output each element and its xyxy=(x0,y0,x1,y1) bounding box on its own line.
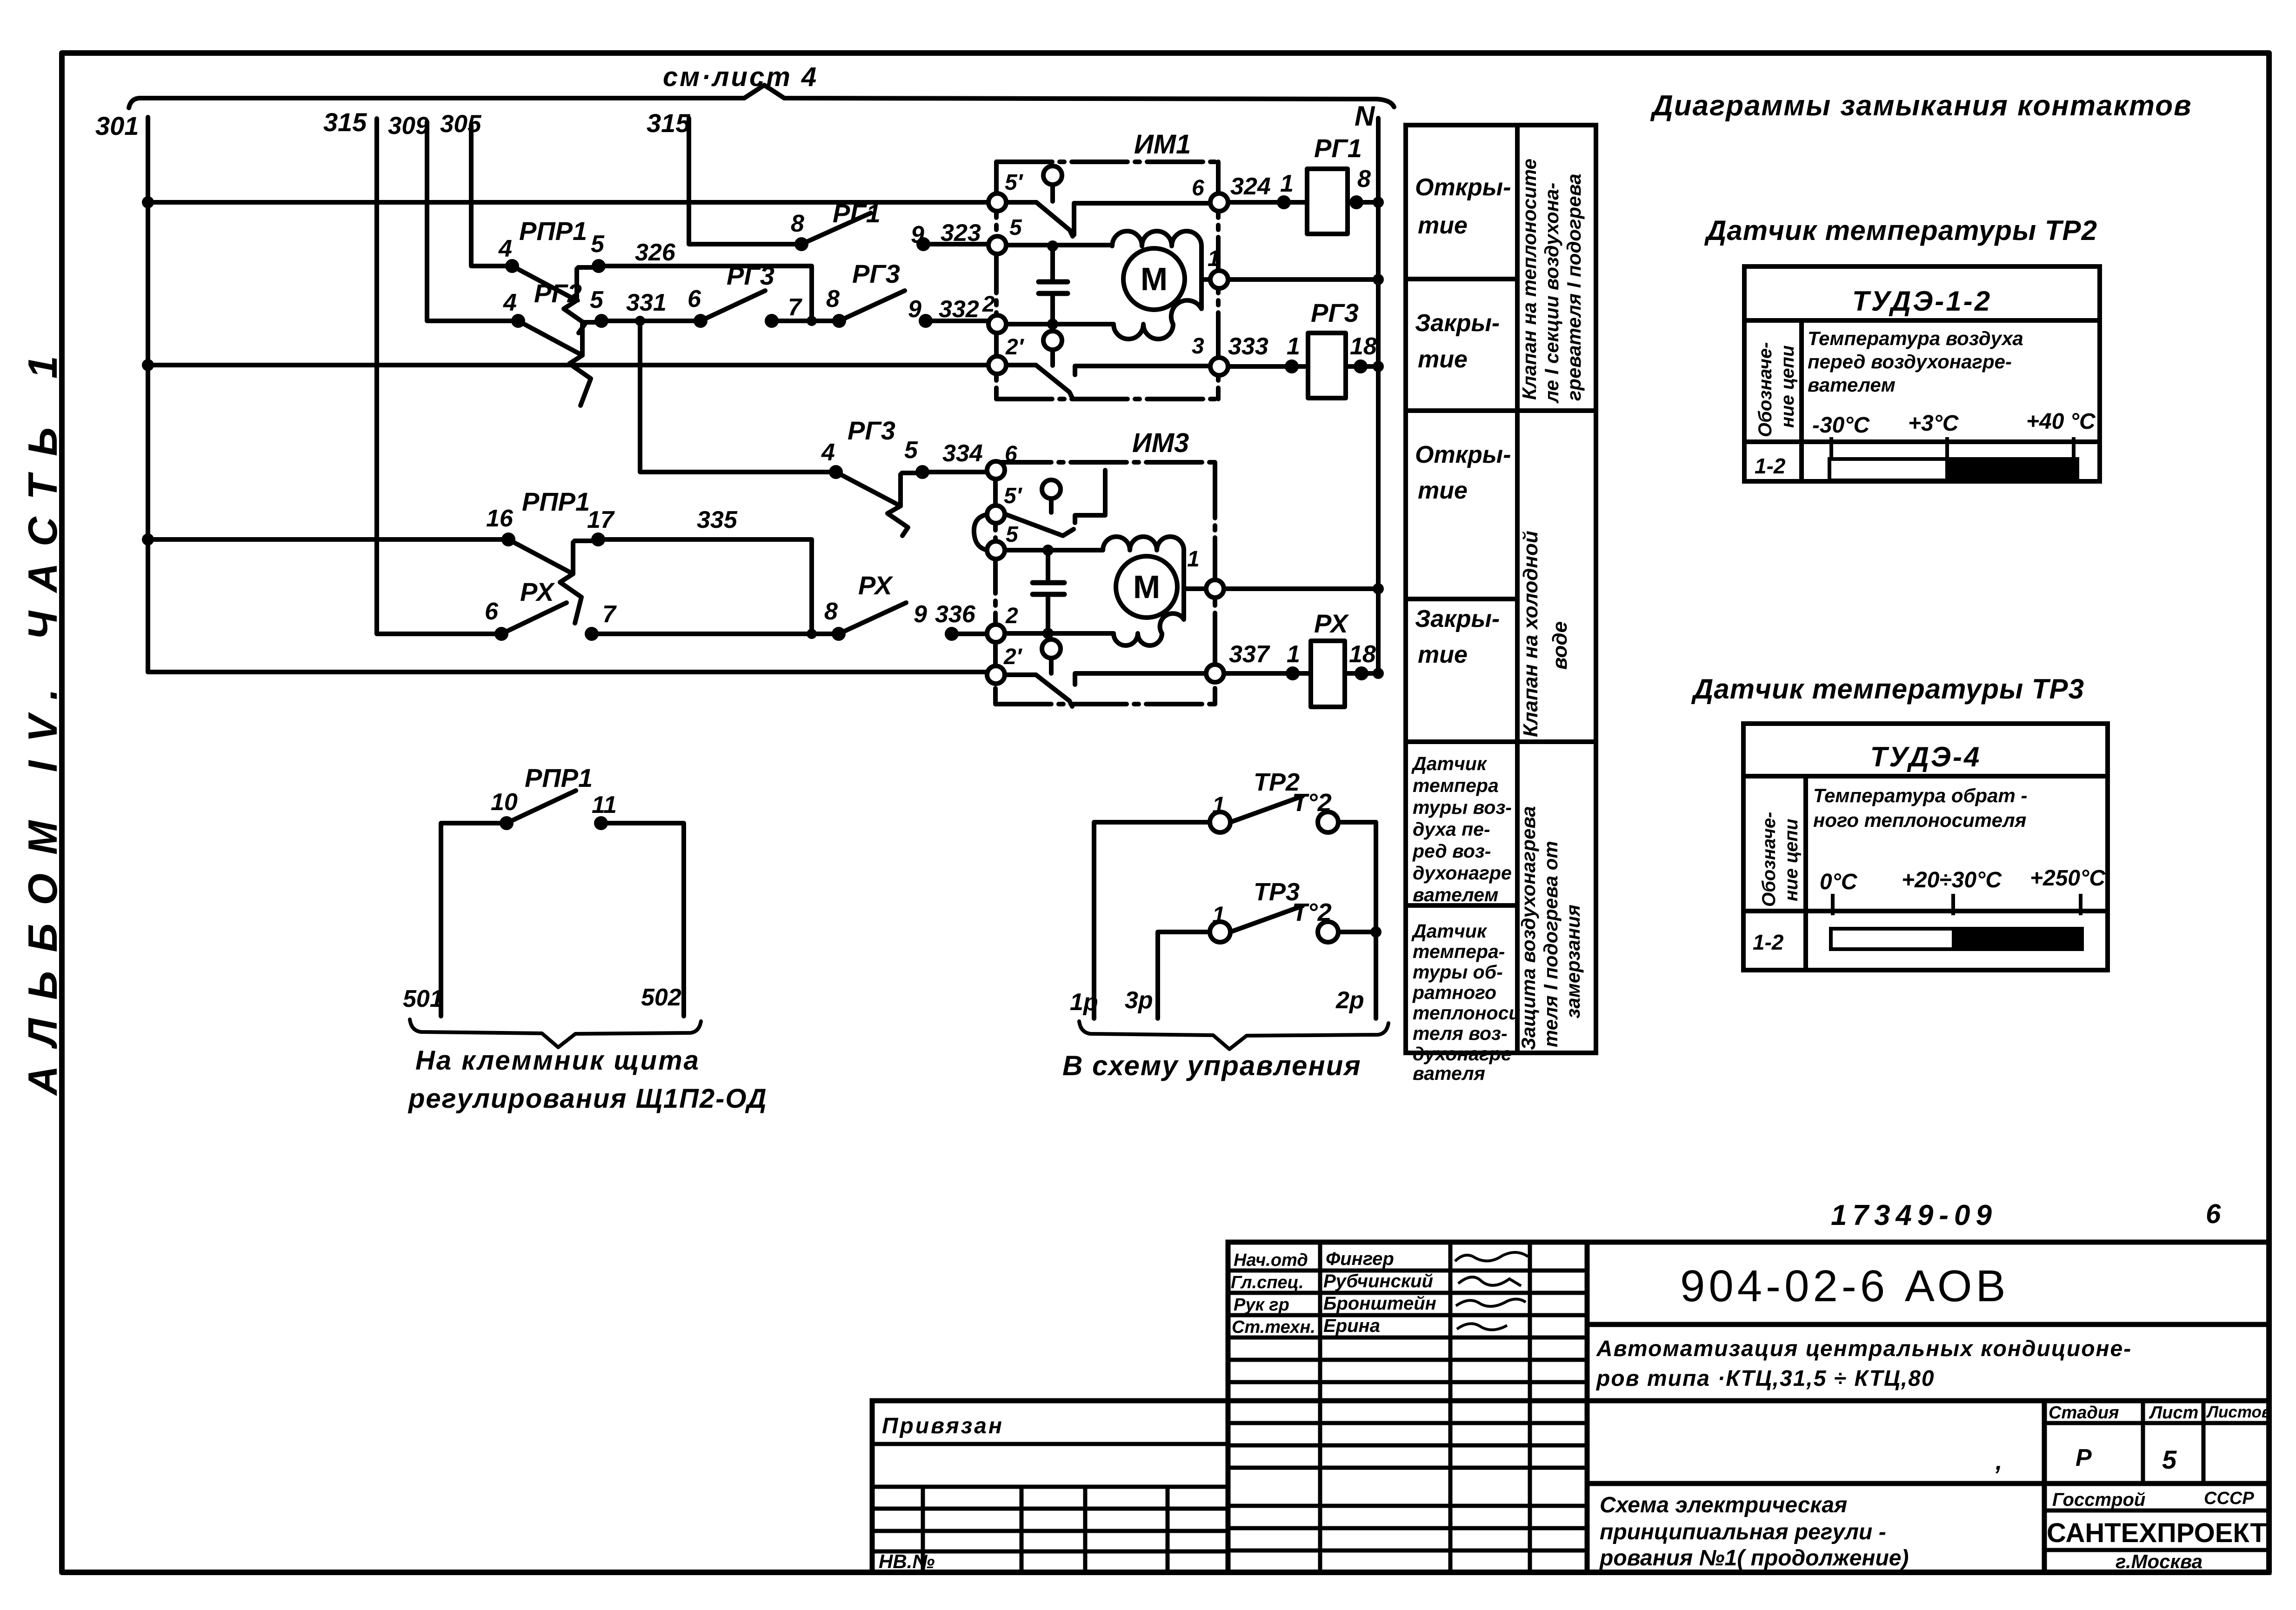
svg-text:Ерина: Ерина xyxy=(1323,1316,1380,1336)
svg-text:+20÷30°С: +20÷30°С xyxy=(1902,868,2002,892)
svg-text:ред воз-: ред воз- xyxy=(1412,840,1491,862)
svg-text:РПР1: РПР1 xyxy=(522,487,590,516)
svg-text:Т°2: Т°2 xyxy=(1292,898,1332,926)
ИМ3 motor M xyxy=(1116,556,1207,618)
ИМ1 winding upper xyxy=(1112,231,1201,279)
svg-text:ТУДЭ-4: ТУДЭ-4 xyxy=(1870,741,1982,772)
svg-text:РГ3: РГ3 xyxy=(1311,298,1359,327)
sensor ТР3 row xyxy=(1158,906,1376,1018)
svg-text:ТУДЭ-1-2: ТУДЭ-1-2 xyxy=(1852,286,1992,317)
svg-text:324: 324 xyxy=(1230,173,1271,200)
svg-text:3р: 3р xyxy=(1125,987,1153,1014)
node РХ pin 8 xyxy=(832,627,846,641)
svg-text:1: 1 xyxy=(1187,547,1200,572)
wire 1-row ИМ3 to N xyxy=(1224,586,1378,591)
svg-text:331: 331 xyxy=(626,289,667,316)
node РХ coil 1 xyxy=(1286,666,1300,680)
svg-text:5: 5 xyxy=(590,286,604,313)
svg-text:Закры-: Закры- xyxy=(1415,605,1500,632)
wire 323 xyxy=(923,242,989,246)
svg-text:335: 335 xyxy=(697,506,738,533)
wire 333 row xyxy=(1228,364,1308,369)
svg-text:РГ3: РГ3 xyxy=(848,416,895,445)
junction capacitor bottom ИМ1 xyxy=(1047,319,1058,330)
svg-text:9: 9 xyxy=(911,221,924,248)
svg-text:+40 °С: +40 °С xyxy=(2026,409,2096,434)
node rail1-bus301 xyxy=(142,196,154,208)
svg-text:16: 16 xyxy=(486,505,514,532)
svg-text:Автоматизация центральных ко: Автоматизация центральных кондиционе- xyxy=(1596,1337,2132,1361)
svg-text:Датчик: Датчик xyxy=(1411,753,1488,774)
svg-text:,: , xyxy=(1995,1448,2002,1475)
svg-text:17: 17 xyxy=(587,506,615,533)
labels ТУДЭ-4 xyxy=(1753,741,2106,954)
svg-text:теля I подогрева от: теля I подогрева от xyxy=(1540,841,1562,1047)
svg-text:Откры-: Откры- xyxy=(1415,174,1511,201)
band ТУДЭ-4 xyxy=(1831,929,2082,949)
contact РПР1 16-17 xyxy=(508,539,598,623)
node РХ pin 9 xyxy=(945,627,959,641)
ИМ3 wire 5-row xyxy=(1004,548,1103,552)
svg-text:ратного: ратного xyxy=(1412,982,1496,1003)
svg-text:6: 6 xyxy=(1005,442,1017,466)
svg-text:РХ: РХ xyxy=(1314,609,1349,638)
svg-text:2′: 2′ xyxy=(1003,645,1023,669)
ИМ3 capacitor xyxy=(1033,550,1064,632)
svg-text:305: 305 xyxy=(440,110,482,138)
node РПР1 pin 10 xyxy=(500,816,514,830)
junction N-324 xyxy=(1373,197,1384,208)
svg-text:ле I секции воздухона-: ле I секции воздухона- xyxy=(1541,183,1562,404)
node РГ3 pin 7 xyxy=(765,314,779,328)
ticks ТУДЭ-4 xyxy=(1833,894,2081,915)
junction capacitor bottom ИМ3 xyxy=(1042,628,1054,639)
svg-text:В схему управления: В схему управления xyxy=(1062,1050,1362,1081)
svg-text:Схема электрическая: Схема электрическая xyxy=(1600,1493,1847,1517)
node РГ3 coil 18 xyxy=(1354,359,1368,373)
svg-text:2: 2 xyxy=(982,292,995,317)
svg-text:туры об-: туры об- xyxy=(1413,961,1503,983)
junction N-333 xyxy=(1373,361,1384,372)
svg-text:Температура обрат -: Температура обрат - xyxy=(1813,785,2028,806)
node РГ1 pin 8 xyxy=(794,237,808,251)
wire row РПР1 16-17 xyxy=(148,537,502,542)
wire rail1 xyxy=(148,200,988,205)
node РПР1 pin 11 xyxy=(594,816,608,830)
svg-text:1: 1 xyxy=(1287,641,1300,668)
node РГ2 pin 5 xyxy=(594,314,608,328)
svg-text:904-02-6 АОВ: 904-02-6 АОВ xyxy=(1680,1261,2009,1311)
svg-text:Фингер: Фингер xyxy=(1326,1249,1394,1269)
contact РХ 6-7 xyxy=(501,603,567,634)
svg-text:РПР1: РПР1 xyxy=(525,763,593,792)
contact РПР1 10-11 xyxy=(441,791,684,1016)
svg-text:Рук гр: Рук гр xyxy=(1234,1295,1289,1315)
svg-text:ИМ3: ИМ3 xyxy=(1132,428,1189,458)
svg-text:Датчик температуры ТР3: Датчик температуры ТР3 xyxy=(1691,673,2084,705)
stamp attach box xyxy=(872,1401,1228,1572)
node РПР1 pin 5 xyxy=(592,259,606,273)
title block outer xyxy=(1228,1242,2269,1572)
node РГ3 pin 6 xyxy=(694,314,707,328)
svg-text:333: 333 xyxy=(1228,333,1268,360)
coil РХ xyxy=(1311,641,1345,707)
svg-text:СССР: СССР xyxy=(2204,1489,2254,1508)
junction capacitor top ИМ1 xyxy=(1047,240,1058,252)
svg-text:17349-09: 17349-09 xyxy=(1831,1199,1997,1231)
svg-text:тие: тие xyxy=(1418,346,1468,373)
bracket see-sheet-4 xyxy=(129,85,1394,108)
wire 336 xyxy=(952,632,986,636)
svg-text:301: 301 xyxy=(95,111,139,140)
table right col rotated text 3 xyxy=(1517,806,1584,1050)
ИМ1 limit switch bottom xyxy=(1007,331,1211,398)
svg-text:Обозначе-: Обозначе- xyxy=(1755,342,1775,438)
contact РХ 8-9 xyxy=(839,603,906,634)
title block name grid verticals xyxy=(1318,1242,1322,1572)
brace control circuit xyxy=(1079,1021,1388,1049)
ИМ3 wire 2-row xyxy=(1004,631,1114,636)
junction 2р-ТР3 xyxy=(1370,926,1382,938)
svg-text:замерзания: замерзания xyxy=(1562,905,1584,1018)
svg-text:18: 18 xyxy=(1349,641,1376,668)
svg-text:8: 8 xyxy=(826,286,840,313)
svg-text:Обозначе-: Обозначе- xyxy=(1759,812,1779,907)
svg-text:4: 4 xyxy=(498,235,512,262)
svg-text:Закры-: Закры- xyxy=(1415,310,1500,337)
svg-text:502: 502 xyxy=(641,984,681,1011)
svg-text:теплоноси: теплоноси xyxy=(1413,1002,1520,1024)
svg-text:принципиальная регули -: принципиальная регули - xyxy=(1600,1520,1886,1544)
actuator ИМ3 box xyxy=(995,462,1215,704)
svg-text:ние цепи: ние цепи xyxy=(1781,819,1802,901)
table row lines xyxy=(1406,277,1517,281)
svg-text:Защита воздухонагрева: Защита воздухонагрева xyxy=(1517,806,1539,1050)
svg-text:N: N xyxy=(1355,100,1375,132)
svg-text:309: 309 xyxy=(388,112,429,140)
ИМ3 limit switch bottom xyxy=(1004,639,1207,706)
node РПР1 pin 16 xyxy=(501,532,515,546)
svg-text:духонагре: духонагре xyxy=(1413,862,1512,884)
node РГ1 coil 8 xyxy=(1349,195,1363,209)
table right col rotated text 2 xyxy=(1519,531,1571,737)
svg-text:8: 8 xyxy=(791,210,804,237)
bus 309 xyxy=(427,122,512,321)
svg-text:ИМ1: ИМ1 xyxy=(1134,129,1191,160)
ИМ3 winding lower xyxy=(1114,589,1184,645)
wire 7 to 8 xyxy=(772,319,839,323)
svg-text:г.Москва: г.Москва xyxy=(2116,1550,2203,1572)
svg-text:САНТЕХПРОЕКТ: САНТЕХПРОЕКТ xyxy=(2047,1518,2267,1548)
svg-text:Откры-: Откры- xyxy=(1415,441,1511,468)
svg-text:1-2: 1-2 xyxy=(1755,454,1786,478)
svg-text:РХ: РХ xyxy=(520,577,555,606)
contact РГ3 8-9 xyxy=(839,291,905,321)
svg-text:+3°С: +3°С xyxy=(1908,411,1959,436)
node РГ1 pin 9 xyxy=(916,237,930,251)
svg-text:духонагре: духонагре xyxy=(1413,1043,1512,1064)
wire 331 down xyxy=(640,321,836,472)
bus N xyxy=(1376,118,1381,675)
sensor ТР2 row xyxy=(1094,796,1376,1018)
ИМ3 terminal circles xyxy=(987,461,1224,684)
svg-text:АЛЬБОМ IV. ЧАСТЬ 1: АЛЬБОМ IV. ЧАСТЬ 1 xyxy=(20,337,66,1096)
junction N-337 xyxy=(1373,668,1384,679)
junction capacitor top ИМ3 xyxy=(1042,545,1054,556)
table col divider xyxy=(1515,125,1520,1053)
svg-text:Клапан на теплоносите: Клапан на теплоносите xyxy=(1518,159,1540,400)
svg-text:5′: 5′ xyxy=(1004,484,1023,508)
svg-text:337: 337 xyxy=(1229,641,1270,668)
node РГ3 pin 9 xyxy=(919,314,933,328)
svg-text:РХ: РХ xyxy=(858,571,894,600)
svg-text:Датчик температуры ТР2: Датчик температуры ТР2 xyxy=(1704,215,2097,246)
svg-text:ного теплоносителя: ного теплоносителя xyxy=(1813,809,2026,831)
svg-text:темпера: темпера xyxy=(1413,775,1499,796)
svg-text:5: 5 xyxy=(1009,215,1022,240)
svg-text:Бронштейн: Бронштейн xyxy=(1323,1293,1436,1314)
node РГ2 pin 4 xyxy=(511,314,525,328)
svg-text:10: 10 xyxy=(491,789,518,816)
svg-text:332: 332 xyxy=(939,296,979,323)
svg-text:6: 6 xyxy=(687,286,701,313)
ИМ3 strap 5p-5 xyxy=(974,514,988,550)
svg-text:воде: воде xyxy=(1548,621,1571,670)
ИМ1 motor M xyxy=(1123,248,1211,310)
svg-text:Нач.отд: Нач.отд xyxy=(1234,1251,1308,1270)
svg-text:РГ3: РГ3 xyxy=(727,261,774,290)
svg-text:8: 8 xyxy=(824,598,838,625)
svg-text:1р: 1р xyxy=(1070,989,1098,1016)
svg-text:темпера-: темпера- xyxy=(1413,941,1505,962)
svg-text:РГ2: РГ2 xyxy=(534,279,582,308)
contact РГ1 8-9 xyxy=(801,213,871,244)
bus 305 xyxy=(471,126,506,266)
actuator ИМ1 box xyxy=(996,162,1218,399)
svg-text:7: 7 xyxy=(788,294,802,321)
wire rail2 xyxy=(148,363,988,367)
contact РГ3 4-5 xyxy=(836,472,922,536)
svg-text:1: 1 xyxy=(1208,246,1220,271)
svg-text:На клеммник щита: На клеммник щита xyxy=(415,1045,700,1076)
node РГ3 pin 5 xyxy=(915,465,929,479)
coil РГ3 xyxy=(1308,333,1346,398)
svg-text:6: 6 xyxy=(2206,1199,2221,1229)
svg-text:Диаграммы замыкания контакто: Диаграммы замыкания контактов xyxy=(1650,90,2192,122)
svg-text:2: 2 xyxy=(1005,604,1018,628)
sensor box ТУДЭ-4 xyxy=(1743,724,2108,970)
band ТУДЭ-1-2 xyxy=(1829,459,2077,480)
svg-text:326: 326 xyxy=(635,239,676,266)
svg-text:туры воз-: туры воз- xyxy=(1413,797,1512,818)
svg-text:Т°2: Т°2 xyxy=(1292,789,1332,817)
svg-text:-30°С: -30°С xyxy=(1812,413,1870,438)
svg-text:теля воз-: теля воз- xyxy=(1413,1023,1508,1044)
node РГ1 coil 1 xyxy=(1277,195,1291,209)
coil РГ1 xyxy=(1307,169,1348,234)
svg-text:вателем: вателем xyxy=(1413,884,1498,905)
node РГ3 pin 4 xyxy=(829,465,843,479)
svg-text:11: 11 xyxy=(592,792,617,818)
junction 326-row331 xyxy=(807,316,817,326)
svg-text:5: 5 xyxy=(904,437,918,464)
node РХ coil 18 xyxy=(1355,666,1368,680)
contact РГ3 6-7 xyxy=(701,291,765,321)
node РПР1row-bus301 xyxy=(142,533,154,546)
bus 315 right xyxy=(689,118,801,244)
wire 332 xyxy=(926,319,988,323)
bus 315 left xyxy=(377,119,495,634)
ИМ3 limit switch top xyxy=(1006,470,1105,536)
svg-text:духа пе-: духа пе- xyxy=(1413,818,1490,840)
svg-text:4: 4 xyxy=(503,289,517,316)
svg-text:Привязан: Привязан xyxy=(882,1414,1004,1438)
svg-text:5: 5 xyxy=(1006,522,1019,547)
svg-text:2р: 2р xyxy=(1335,987,1364,1014)
table sensor cell text 1 xyxy=(1411,753,1512,905)
svg-text:7: 7 xyxy=(602,601,617,628)
svg-text:9: 9 xyxy=(914,601,927,628)
svg-text:323: 323 xyxy=(941,220,981,246)
svg-text:2′: 2′ xyxy=(1005,335,1025,359)
ИМ1 capacitor xyxy=(1039,246,1068,323)
svg-text:вателя: вателя xyxy=(1413,1063,1485,1084)
junction 331 xyxy=(635,316,645,326)
ИМ1 wire 5-row xyxy=(1006,243,1112,247)
wire 1-row ИМ1 to N xyxy=(1228,277,1378,282)
svg-text:1: 1 xyxy=(1212,792,1225,818)
svg-text:501: 501 xyxy=(403,985,443,1012)
svg-text:тие: тие xyxy=(1418,212,1468,239)
node РПР1 pin 4 xyxy=(505,259,519,273)
svg-text:Гл.спец.: Гл.спец. xyxy=(1231,1273,1304,1292)
wire 7 to 8 px xyxy=(592,632,839,636)
node РХ pin 7 xyxy=(585,627,599,641)
function table frame xyxy=(1406,125,1596,1053)
svg-text:4: 4 xyxy=(821,439,835,466)
ИМ1 limit switch top xyxy=(1006,166,1211,236)
junction N-motor1 xyxy=(1373,274,1384,285)
svg-text:Ст.техн.: Ст.техн. xyxy=(1232,1317,1315,1337)
svg-text:регулирования Щ1П2-ОД: регулирования Щ1П2-ОД xyxy=(407,1084,768,1114)
node РГ3 coil 1 xyxy=(1285,359,1299,373)
wire 324 row xyxy=(1228,200,1307,205)
wire 326 xyxy=(599,266,812,321)
svg-text:гревателя I подогрева: гревателя I подогрева xyxy=(1563,173,1585,401)
ИМ1 wire 2-row xyxy=(1006,322,1114,326)
svg-text:Клапан на холодной: Клапан на холодной xyxy=(1519,531,1542,737)
wire 335 xyxy=(598,539,812,634)
table sensor cell text 2 xyxy=(1411,920,1520,1084)
wire 2p xyxy=(1374,822,1378,1018)
svg-text:315: 315 xyxy=(647,108,690,138)
node РГ3 pin 8 xyxy=(832,314,846,328)
signatures xyxy=(1455,1252,1528,1330)
svg-text:Рубчинский: Рубчинский xyxy=(1323,1271,1433,1291)
svg-text:РГ3: РГ3 xyxy=(852,259,900,288)
wire 334 xyxy=(922,470,987,474)
svg-text:9: 9 xyxy=(908,296,921,323)
ticks ТУДЭ-1-2 xyxy=(1831,437,2074,458)
svg-text:РГ1: РГ1 xyxy=(833,199,881,228)
svg-text:5′: 5′ xyxy=(1005,170,1024,195)
svg-text:1: 1 xyxy=(1280,170,1294,197)
svg-text:ров типа ·КТЦ,31,5 ÷ КТЦ,80: ров типа ·КТЦ,31,5 ÷ КТЦ,80 xyxy=(1595,1366,1935,1391)
table right col rotated text 1 xyxy=(1518,159,1585,404)
ИМ1 winding lower xyxy=(1114,279,1201,339)
wire 337 row xyxy=(1224,671,1311,676)
svg-text:тие: тие xyxy=(1418,477,1468,504)
svg-text:1: 1 xyxy=(1287,333,1300,360)
ИМ3 winding upper xyxy=(1103,537,1184,589)
svg-text:перед воздухонагре-: перед воздухонагре- xyxy=(1808,351,2012,373)
svg-text:336: 336 xyxy=(935,601,976,628)
svg-text:6: 6 xyxy=(1192,176,1204,200)
svg-text:5: 5 xyxy=(591,231,605,258)
bus 301 xyxy=(146,117,150,672)
svg-text:334: 334 xyxy=(942,440,983,467)
svg-text:М: М xyxy=(1133,569,1160,605)
svg-text:Стадия: Стадия xyxy=(2049,1403,2119,1423)
svg-text:Госстрой: Госстрой xyxy=(2052,1490,2145,1510)
svg-text:0°С: 0°С xyxy=(1820,870,1858,894)
svg-text:1: 1 xyxy=(1212,902,1225,928)
junction 335-РХrow xyxy=(807,629,817,639)
svg-text:М: М xyxy=(1141,261,1168,297)
svg-text:РПР1: РПР1 xyxy=(519,216,587,246)
svg-text:тие: тие xyxy=(1418,641,1468,668)
svg-text:Лист: Лист xyxy=(2149,1403,2198,1423)
sensor box ТУДЭ-1-2 xyxy=(1744,266,2100,481)
svg-text:3: 3 xyxy=(1192,334,1204,359)
svg-text:см·лист 4: см·лист 4 xyxy=(663,62,818,92)
node РХ pin 6 xyxy=(494,627,508,641)
svg-text:Температура воздуха: Температура воздуха xyxy=(1808,327,2023,349)
svg-text:Р: Р xyxy=(2076,1444,2092,1471)
svg-text:6: 6 xyxy=(485,598,499,625)
svg-text:1-2: 1-2 xyxy=(1753,930,1784,954)
svg-text:рования №1( продолжение): рования №1( продолжение) xyxy=(1599,1546,1909,1570)
junction N-motor3 xyxy=(1373,583,1384,594)
node rail2-bus301 xyxy=(142,359,154,371)
svg-text:Листов: Листов xyxy=(2206,1403,2271,1421)
svg-text:вателем: вателем xyxy=(1808,374,1896,396)
svg-text:ние цепи: ние цепи xyxy=(1777,346,1798,428)
title block texts xyxy=(879,1199,2271,1572)
node РПР1 pin 17 xyxy=(591,532,605,546)
contact РПР1 4-5 xyxy=(512,266,599,333)
svg-text:315: 315 xyxy=(323,107,367,137)
svg-text:18: 18 xyxy=(1350,333,1377,360)
table cell texts left xyxy=(1415,174,1511,668)
svg-text:5: 5 xyxy=(2162,1445,2177,1474)
brace terminal panel xyxy=(410,1019,701,1047)
title block main dividers xyxy=(1587,1322,2269,1327)
svg-text:+250°С: +250°С xyxy=(2030,866,2106,891)
contact РГ2 4-5 xyxy=(518,321,601,406)
wire row 331 xyxy=(601,319,701,323)
svg-text:РГ1: РГ1 xyxy=(1314,133,1362,163)
wire rail4 xyxy=(148,670,987,674)
svg-text:8: 8 xyxy=(1357,166,1371,193)
labels ТУДЭ-1-2 xyxy=(1755,286,2096,478)
svg-text:Датчик: Датчик xyxy=(1411,920,1488,942)
svg-text:НВ.№: НВ.№ xyxy=(879,1550,934,1572)
title block name grid rows xyxy=(1228,1269,1587,1273)
ИМ1 terminal circles xyxy=(988,193,1228,375)
